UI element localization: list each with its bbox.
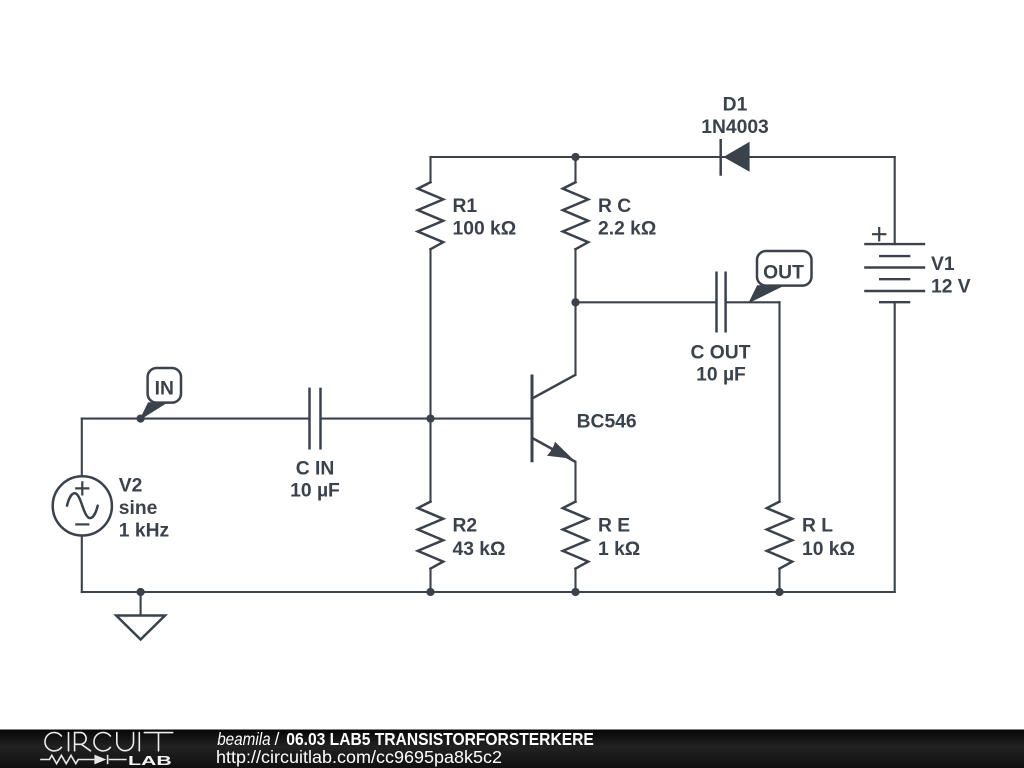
wire IN net left segment	[82, 418, 309, 420]
svg-text:C OUT: C OUT	[691, 342, 751, 363]
wire RC top lead	[574, 157, 576, 182]
resistor R1	[418, 182, 443, 249]
wire V1 bottom stub	[894, 302, 896, 592]
wire V1 top stub	[894, 157, 896, 244]
wire collector node to transistor	[574, 302, 576, 375]
wire ground stub	[140, 592, 142, 616]
node junction collector / C OUT	[571, 298, 579, 306]
resistor RE	[563, 502, 588, 569]
transistor Q1 emitter arrow	[547, 442, 573, 459]
wire IN net right segment to base	[321, 418, 532, 420]
wire V2 top stub	[81, 419, 83, 477]
battery V1 plus sign	[872, 227, 886, 241]
svg-text:http://circuitlab.com/cc9695pa: http://circuitlab.com/cc9695pa8k5c2	[216, 747, 502, 767]
svg-text:beamila: beamila	[217, 729, 271, 749]
wire top rail	[431, 156, 895, 158]
source V2 minus mark	[75, 523, 89, 525]
svg-text:R C: R C	[598, 196, 631, 217]
svg-text:10 µF: 10 µF	[290, 480, 340, 501]
svg-text:OUT: OUT	[763, 262, 804, 283]
flag OUT tail	[750, 286, 783, 302]
ground symbol triangle	[116, 616, 165, 640]
wire R1 bottom to base node to R2 top	[429, 249, 431, 501]
node junction base tee	[426, 414, 434, 422]
footer logo CIRCUIT stroked letters	[45, 733, 173, 751]
flag IN tail	[141, 403, 166, 419]
resistor RC	[563, 182, 588, 249]
svg-text:V1: V1	[931, 254, 955, 275]
capacitor C IN plates	[310, 389, 321, 448]
svg-text:R E: R E	[598, 516, 630, 537]
wire RC bottom to collector node	[574, 249, 576, 302]
footer bar	[0, 730, 1024, 768]
battery V1 plates	[864, 244, 925, 302]
resistor R2	[418, 502, 443, 569]
wire bottom rail (ground net)	[82, 591, 895, 593]
node junction IN flag	[136, 414, 144, 422]
diode D1 cathode bar	[719, 140, 722, 174]
wire R1 top lead	[429, 157, 431, 182]
svg-text:LAB: LAB	[128, 753, 172, 768]
svg-text:06.03 LAB5 TRANSISTORFORSTERKE: 06.03 LAB5 TRANSISTORFORSTERKERE	[286, 729, 594, 749]
wire V2 bottom stub	[81, 536, 83, 593]
transistor Q1 emitter diagonal	[533, 438, 576, 462]
svg-text:43 kΩ: 43 kΩ	[453, 539, 506, 560]
source V2 circle	[53, 476, 112, 535]
node junction RL bottom	[775, 588, 783, 596]
transistor Q1 base bar	[531, 375, 534, 463]
node junction R2 bottom	[426, 588, 434, 596]
wire RL top lead	[778, 302, 780, 501]
transistor Q1 collector diagonal	[533, 375, 576, 399]
svg-text:10 µF: 10 µF	[696, 364, 746, 385]
svg-text:R L: R L	[802, 516, 833, 537]
svg-text:sine: sine	[119, 498, 158, 519]
capacitor C OUT plates	[717, 273, 726, 331]
footer logo resistor-diode glyph	[40, 755, 127, 764]
wire RL bottom lead	[778, 569, 780, 592]
svg-text:R2: R2	[453, 516, 478, 537]
svg-text:12 V: 12 V	[931, 276, 971, 297]
node junction RE bottom	[571, 588, 579, 596]
resistor RL	[767, 502, 792, 569]
wire C OUT net left	[576, 301, 717, 303]
diode D1 triangle	[723, 142, 749, 172]
wire RE bottom lead	[574, 569, 576, 592]
node junction ground tee	[136, 588, 144, 596]
svg-text:100 kΩ: 100 kΩ	[453, 218, 517, 239]
footer logo diode triangle	[94, 755, 106, 765]
svg-text:2.2 kΩ: 2.2 kΩ	[598, 218, 656, 239]
wire emitter to RE top	[574, 462, 576, 502]
svg-text:V2: V2	[119, 475, 143, 496]
svg-text:1 kΩ: 1 kΩ	[598, 539, 640, 560]
svg-text:R1: R1	[453, 196, 478, 217]
source V2 plus mark	[75, 481, 89, 495]
svg-text:1N4003: 1N4003	[701, 117, 769, 138]
wire C OUT net right to RL corner	[726, 301, 780, 303]
svg-text:IN: IN	[155, 378, 174, 399]
svg-text:BC546: BC546	[577, 411, 637, 432]
svg-text:1 kHz: 1 kHz	[119, 520, 169, 541]
flag IN box	[148, 368, 181, 403]
source V2 sine glyph	[67, 493, 98, 518]
node junction RC top	[571, 153, 579, 161]
svg-text:10 kΩ: 10 kΩ	[802, 539, 855, 560]
svg-text:C IN: C IN	[296, 458, 335, 479]
svg-text:D1: D1	[723, 94, 748, 115]
svg-text:/: /	[275, 729, 280, 749]
flag OUT box	[757, 251, 812, 286]
wire R2 bottom lead	[429, 569, 431, 592]
